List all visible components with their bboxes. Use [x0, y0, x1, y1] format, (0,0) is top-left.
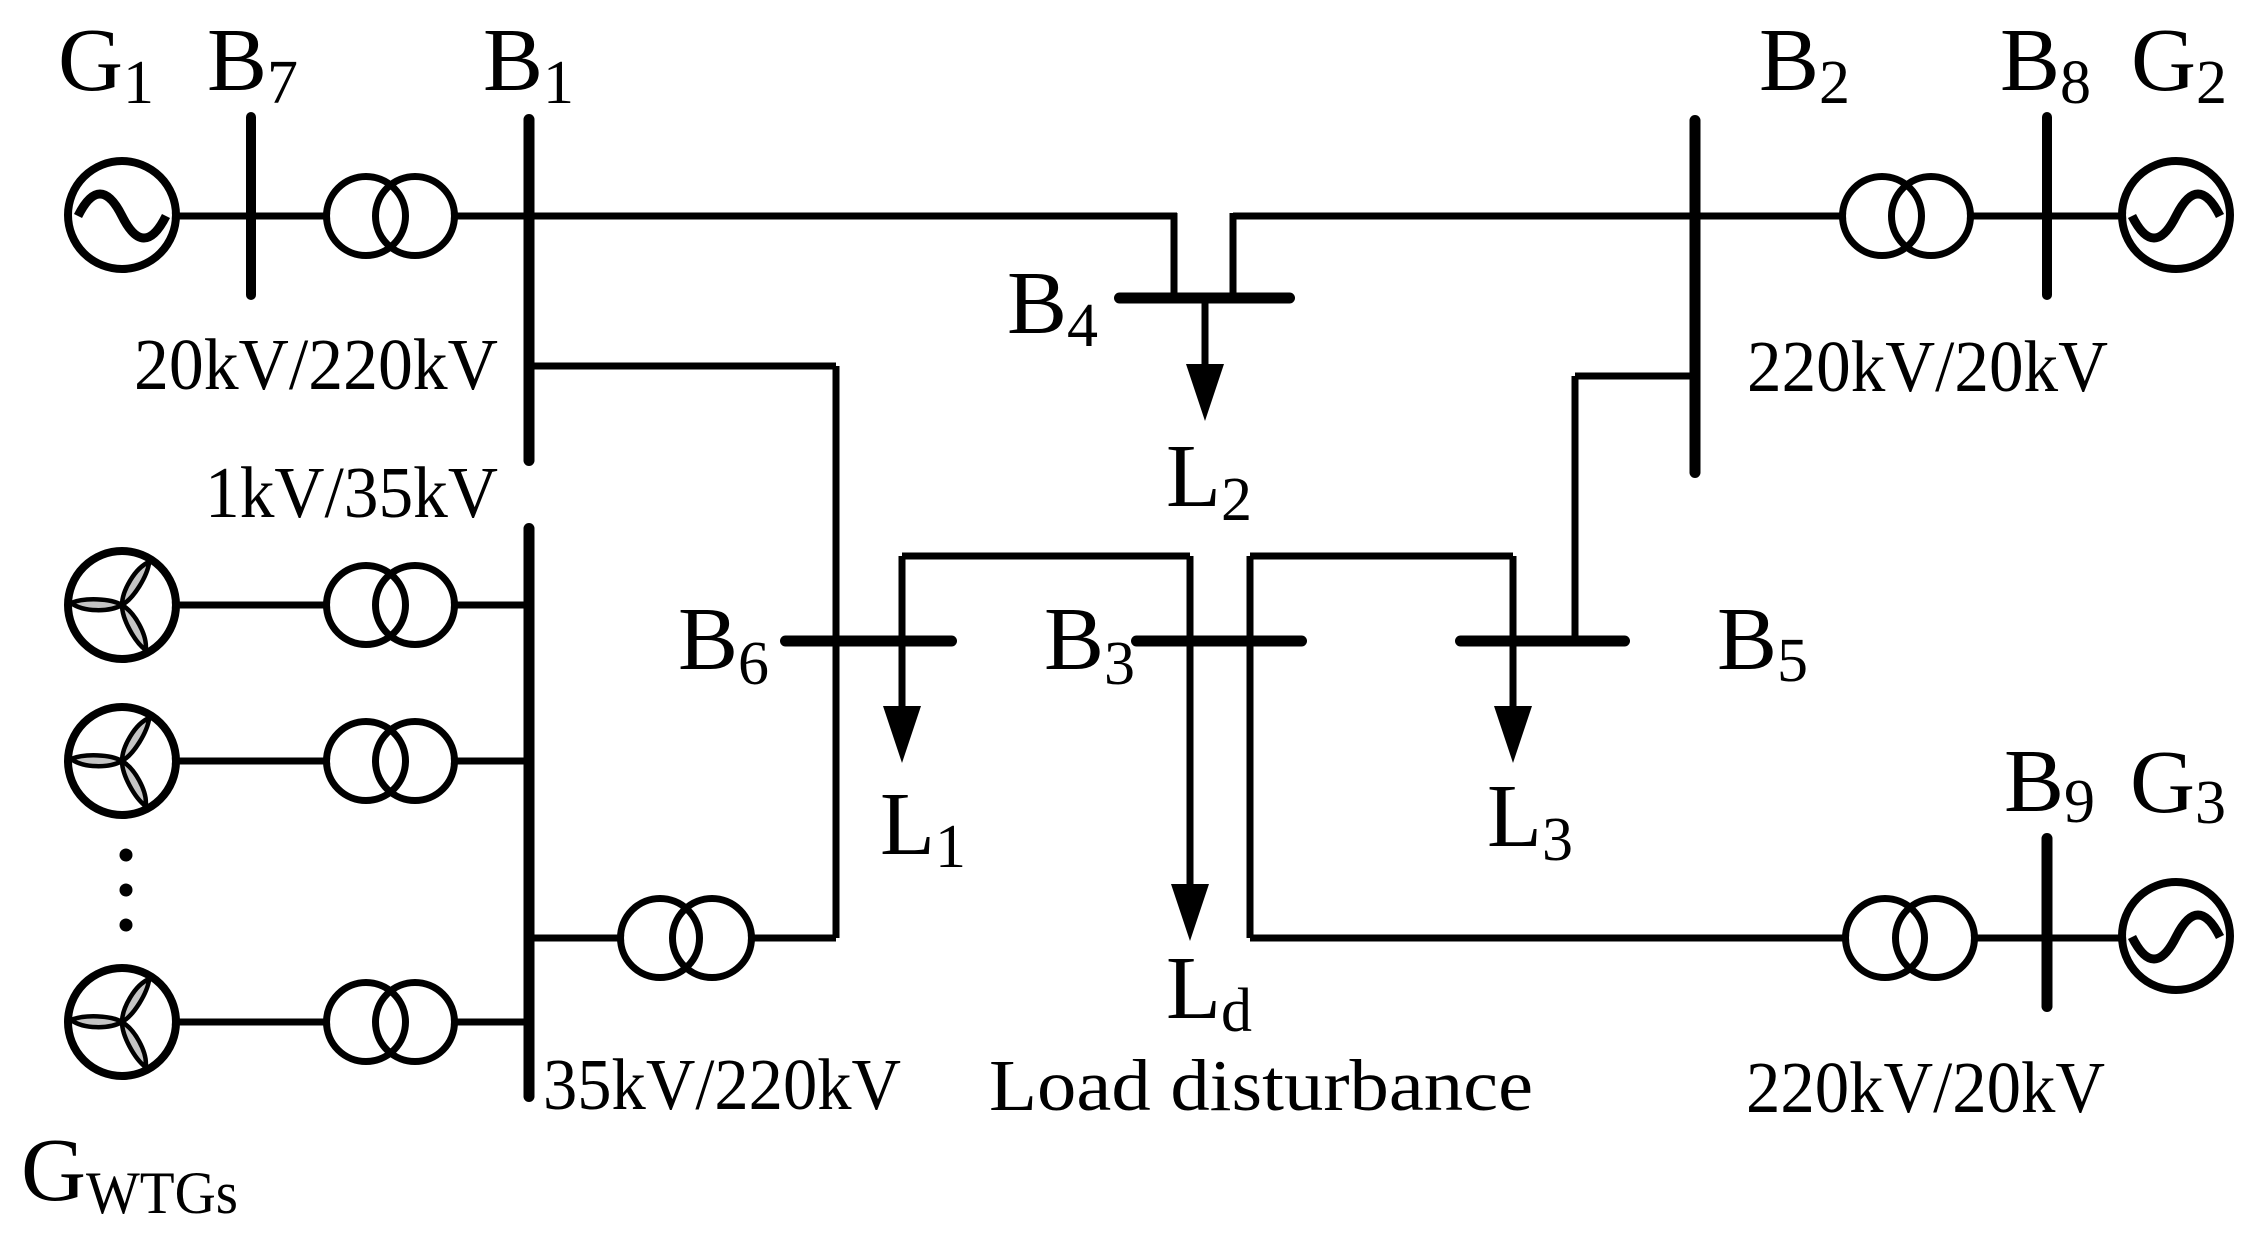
svg-text:220kV/20kV: 220kV/20kV	[1746, 1047, 2105, 1128]
svg-text:20kV/220kV: 20kV/220kV	[134, 324, 498, 405]
svg-text:1kV/35kV: 1kV/35kV	[205, 452, 498, 533]
svg-text:35kV/220kV: 35kV/220kV	[543, 1044, 901, 1125]
svg-text:220kV/20kV: 220kV/20kV	[1747, 326, 2108, 407]
svg-text:Load disturbance: Load disturbance	[989, 1045, 1533, 1126]
